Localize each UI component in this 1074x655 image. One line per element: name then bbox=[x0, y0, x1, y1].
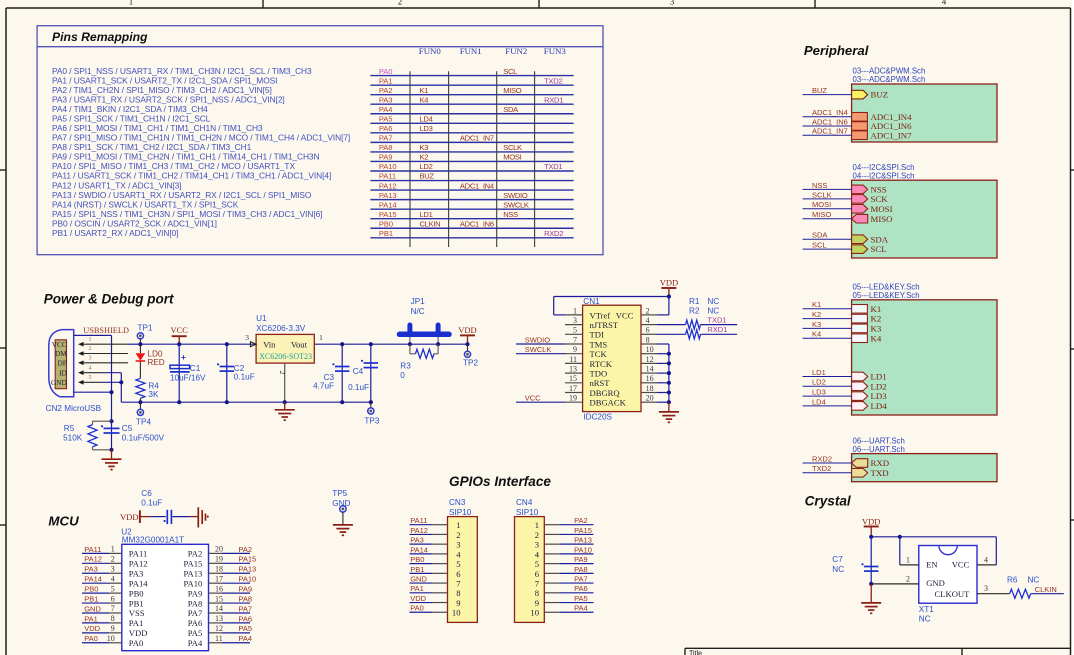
svg-text:4: 4 bbox=[942, 0, 947, 7]
svg-text:TP4: TP4 bbox=[136, 417, 151, 426]
svg-text:7: 7 bbox=[456, 578, 461, 588]
svg-text:10: 10 bbox=[530, 608, 539, 618]
svg-text:8: 8 bbox=[646, 335, 650, 344]
svg-text:PA11 / USART1_SCK / TIM1_CH2 /: PA11 / USART1_SCK / TIM1_CH2 / TIM14_CH1… bbox=[52, 171, 331, 181]
svg-text:PA13: PA13 bbox=[379, 191, 397, 200]
svg-text:8: 8 bbox=[535, 588, 539, 598]
svg-text:4.7uF: 4.7uF bbox=[313, 381, 334, 390]
svg-text:PA4: PA4 bbox=[188, 638, 203, 648]
svg-text:PA1: PA1 bbox=[84, 614, 98, 623]
svg-text:PA2: PA2 bbox=[379, 86, 393, 95]
svg-text:SCK: SCK bbox=[871, 194, 889, 204]
svg-text:R6: R6 bbox=[1007, 575, 1018, 584]
svg-text:1: 1 bbox=[319, 333, 323, 342]
svg-text:PA13: PA13 bbox=[574, 536, 592, 545]
svg-text:SCLK: SCLK bbox=[503, 143, 522, 152]
svg-text:PA0 / SPI1_NSS / USART1_RX / T: PA0 / SPI1_NSS / USART1_RX / TIM1_CH3N /… bbox=[52, 66, 312, 76]
svg-text:ADC1_IN4: ADC1_IN4 bbox=[812, 108, 848, 117]
svg-text:3K: 3K bbox=[148, 390, 159, 399]
svg-text:PA8: PA8 bbox=[238, 594, 252, 603]
svg-text:PB0: PB0 bbox=[84, 585, 98, 594]
svg-text:12: 12 bbox=[215, 624, 223, 633]
svg-text:PB1 / USART2_RX / ADC1_VIN[0]: PB1 / USART2_RX / ADC1_VIN[0] bbox=[52, 228, 178, 238]
svg-text:3: 3 bbox=[573, 316, 577, 325]
svg-text:PA10: PA10 bbox=[379, 162, 397, 171]
svg-text:VDD: VDD bbox=[129, 628, 148, 638]
svg-text:K3: K3 bbox=[871, 324, 882, 334]
svg-text:VSS: VSS bbox=[129, 608, 145, 618]
svg-text:ADC1_IN6: ADC1_IN6 bbox=[812, 117, 848, 126]
svg-text:PB0: PB0 bbox=[129, 588, 144, 598]
svg-text:9: 9 bbox=[111, 624, 115, 633]
svg-text:TCK: TCK bbox=[590, 349, 608, 359]
svg-text:SIP10: SIP10 bbox=[516, 508, 539, 517]
svg-text:RXD2: RXD2 bbox=[812, 454, 832, 463]
svg-text:PA12: PA12 bbox=[84, 555, 102, 564]
svg-text:PA12: PA12 bbox=[410, 526, 428, 535]
svg-text:nRST: nRST bbox=[590, 378, 611, 388]
svg-text:R1: R1 bbox=[689, 297, 700, 306]
svg-text:XC6206-3.3V: XC6206-3.3V bbox=[256, 324, 306, 333]
svg-text:BUZ: BUZ bbox=[812, 86, 827, 95]
svg-text:LD4: LD4 bbox=[871, 401, 888, 411]
svg-text:1: 1 bbox=[111, 545, 115, 554]
svg-text:PA10: PA10 bbox=[238, 575, 256, 584]
svg-text:PA12: PA12 bbox=[129, 559, 148, 569]
svg-text:17: 17 bbox=[215, 574, 223, 583]
svg-text:MOSI: MOSI bbox=[871, 204, 893, 214]
svg-text:6: 6 bbox=[111, 594, 115, 603]
svg-text:TP5: TP5 bbox=[332, 489, 347, 498]
svg-text:1: 1 bbox=[456, 520, 460, 530]
svg-text:LD1: LD1 bbox=[871, 372, 887, 382]
svg-text:C1: C1 bbox=[190, 364, 201, 373]
svg-text:VCC: VCC bbox=[52, 340, 67, 349]
svg-text:3: 3 bbox=[670, 0, 675, 7]
svg-text:16: 16 bbox=[646, 374, 654, 383]
svg-text:LD3: LD3 bbox=[871, 391, 888, 401]
svg-text:VDD: VDD bbox=[862, 516, 880, 526]
svg-text:CLKIN: CLKIN bbox=[1035, 585, 1057, 594]
svg-text:NC: NC bbox=[1028, 575, 1040, 584]
svg-text:9: 9 bbox=[535, 598, 539, 608]
svg-text:PB0: PB0 bbox=[379, 219, 393, 228]
svg-text:PA14: PA14 bbox=[379, 200, 397, 209]
svg-text:4: 4 bbox=[984, 555, 988, 564]
svg-text:05---LED&KEY.Sch: 05---LED&KEY.Sch bbox=[853, 291, 920, 300]
svg-text:TP3: TP3 bbox=[364, 416, 379, 425]
svg-text:VCC: VCC bbox=[525, 394, 541, 403]
svg-text:TXD1: TXD1 bbox=[707, 315, 726, 324]
svg-text:PA1: PA1 bbox=[129, 618, 144, 628]
svg-text:PA15: PA15 bbox=[574, 526, 592, 535]
svg-text:K2: K2 bbox=[812, 310, 821, 319]
svg-text:PA15: PA15 bbox=[379, 210, 397, 219]
svg-text:MISO: MISO bbox=[812, 210, 831, 219]
svg-text:15: 15 bbox=[215, 594, 223, 603]
svg-text:4: 4 bbox=[111, 574, 115, 583]
svg-text:RXD1: RXD1 bbox=[707, 325, 727, 334]
svg-text:PA13: PA13 bbox=[238, 565, 256, 574]
svg-text:6: 6 bbox=[535, 569, 540, 579]
svg-text:1: 1 bbox=[535, 520, 539, 530]
svg-text:PA5: PA5 bbox=[188, 628, 203, 638]
svg-text:15: 15 bbox=[569, 374, 577, 383]
svg-text:1: 1 bbox=[89, 337, 92, 343]
svg-text:0.1uF: 0.1uF bbox=[141, 498, 162, 507]
svg-text:LD1: LD1 bbox=[420, 210, 433, 219]
svg-text:PA3: PA3 bbox=[84, 565, 98, 574]
svg-text:PA6: PA6 bbox=[188, 618, 203, 628]
svg-text:BUZ: BUZ bbox=[871, 90, 889, 100]
svg-text:MM32G0001A1T: MM32G0001A1T bbox=[122, 536, 184, 545]
svg-text:MCU: MCU bbox=[48, 514, 79, 529]
svg-text:ADC1_IN7: ADC1_IN7 bbox=[460, 134, 494, 143]
svg-text:2: 2 bbox=[89, 346, 92, 352]
svg-text:RXD: RXD bbox=[871, 458, 890, 468]
svg-text:PB1: PB1 bbox=[84, 594, 98, 603]
svg-text:NC: NC bbox=[707, 297, 719, 306]
svg-text:NSS: NSS bbox=[871, 185, 887, 195]
svg-text:PA15: PA15 bbox=[238, 555, 256, 564]
svg-text:PA11: PA11 bbox=[379, 172, 396, 181]
svg-text:PA9: PA9 bbox=[574, 555, 588, 564]
svg-text:PA7: PA7 bbox=[379, 134, 393, 143]
svg-text:K4: K4 bbox=[420, 95, 429, 104]
svg-text:PA3: PA3 bbox=[129, 568, 144, 578]
svg-text:2: 2 bbox=[535, 530, 539, 540]
svg-text:510K: 510K bbox=[63, 433, 83, 442]
svg-text:17: 17 bbox=[569, 384, 577, 393]
svg-text:PA8: PA8 bbox=[574, 565, 588, 574]
svg-text:nJTRST: nJTRST bbox=[590, 320, 619, 330]
svg-text:0: 0 bbox=[400, 371, 405, 380]
svg-text:PA14 (NRST) / SWCLK / USART1_T: PA14 (NRST) / SWCLK / USART1_TX / SPI1_S… bbox=[52, 199, 239, 209]
svg-text:PA9 / SPI1_MOSI / TIM1_CH2N /: PA9 / SPI1_MOSI / TIM1_CH2N / TIM1_CH1 /… bbox=[52, 152, 320, 162]
svg-text:LD4: LD4 bbox=[812, 397, 826, 406]
svg-text:3: 3 bbox=[245, 333, 249, 342]
svg-text:PA15 / SPI1_NSS / TIM1_CH3N /: PA15 / SPI1_NSS / TIM1_CH3N / SPI1_MOSI … bbox=[52, 209, 322, 219]
svg-text:PA13: PA13 bbox=[184, 568, 203, 578]
svg-text:PA4: PA4 bbox=[379, 105, 393, 114]
svg-text:Peripheral: Peripheral bbox=[804, 43, 869, 58]
svg-text:SCL: SCL bbox=[503, 67, 517, 76]
svg-text:Vout: Vout bbox=[291, 339, 308, 349]
svg-text:DM: DM bbox=[55, 349, 67, 358]
svg-text:2: 2 bbox=[398, 0, 403, 7]
svg-text:K3: K3 bbox=[812, 320, 821, 329]
svg-text:MOSI: MOSI bbox=[812, 200, 831, 209]
svg-text:VDD: VDD bbox=[84, 624, 100, 633]
svg-text:2: 2 bbox=[456, 530, 460, 540]
svg-text:ID: ID bbox=[59, 368, 67, 377]
svg-text:18: 18 bbox=[646, 384, 654, 393]
svg-text:CLKIN: CLKIN bbox=[420, 219, 441, 228]
svg-text:18: 18 bbox=[215, 564, 223, 573]
svg-text:TXD2: TXD2 bbox=[544, 76, 562, 85]
svg-text:PA10 / SPI1_MISO / TIM1_CH3 /: PA10 / SPI1_MISO / TIM1_CH3 / TIM1_CH2 /… bbox=[52, 161, 295, 171]
svg-text:K4: K4 bbox=[812, 330, 821, 339]
svg-text:SDA: SDA bbox=[812, 231, 827, 240]
svg-text:K2: K2 bbox=[871, 314, 882, 324]
svg-text:PA12: PA12 bbox=[379, 181, 397, 190]
svg-text:PA4: PA4 bbox=[574, 604, 588, 613]
svg-text:LD2: LD2 bbox=[871, 381, 887, 391]
svg-text:MISO: MISO bbox=[503, 86, 522, 95]
svg-text:TP1: TP1 bbox=[138, 323, 153, 332]
svg-text:PA3: PA3 bbox=[379, 95, 393, 104]
svg-text:K2: K2 bbox=[420, 153, 429, 162]
svg-text:PA14: PA14 bbox=[410, 545, 428, 554]
svg-text:+: + bbox=[181, 352, 186, 362]
svg-text:GPIOs Interface: GPIOs Interface bbox=[449, 474, 551, 489]
svg-text:GND: GND bbox=[926, 578, 945, 588]
svg-text:3: 3 bbox=[89, 355, 92, 361]
svg-text:NSS: NSS bbox=[503, 210, 518, 219]
svg-text:10uF/16V: 10uF/16V bbox=[170, 373, 206, 382]
svg-text:PA13 / SWDIO / USART1_RX / USA: PA13 / SWDIO / USART1_RX / USART2_RX / I… bbox=[52, 190, 312, 200]
svg-text:5: 5 bbox=[111, 584, 115, 593]
svg-text:7: 7 bbox=[535, 578, 540, 588]
svg-text:MOSI: MOSI bbox=[503, 153, 521, 162]
svg-text:ADC1_IN7: ADC1_IN7 bbox=[812, 127, 848, 136]
svg-text:PA5 / SPI1_SCK / TIM1_CH1N / I: PA5 / SPI1_SCK / TIM1_CH1N / I2C1_SCL bbox=[52, 114, 211, 124]
svg-text:4: 4 bbox=[646, 316, 650, 325]
svg-text:PA11: PA11 bbox=[84, 545, 101, 554]
svg-text:VTref: VTref bbox=[590, 310, 611, 320]
svg-text:PA6: PA6 bbox=[238, 614, 252, 623]
svg-text:06---UART.Sch: 06---UART.Sch bbox=[853, 445, 905, 454]
svg-text:13: 13 bbox=[569, 365, 577, 374]
svg-text:4: 4 bbox=[535, 549, 540, 559]
svg-text:2: 2 bbox=[646, 306, 650, 315]
svg-text:USBSHIELD: USBSHIELD bbox=[83, 326, 129, 335]
svg-text:CN3: CN3 bbox=[449, 498, 466, 507]
svg-text:PA12 / USART1_TX / ADC1_VIN[3]: PA12 / USART1_TX / ADC1_VIN[3] bbox=[52, 180, 181, 190]
svg-text:PA5: PA5 bbox=[379, 115, 393, 124]
svg-text:TP2: TP2 bbox=[463, 359, 478, 368]
svg-text:10: 10 bbox=[452, 608, 461, 618]
svg-text:LD2: LD2 bbox=[812, 378, 826, 387]
svg-text:PA6: PA6 bbox=[379, 124, 393, 133]
svg-text:1: 1 bbox=[906, 555, 910, 564]
svg-text:04---I2C&SPI.Sch: 04---I2C&SPI.Sch bbox=[853, 171, 915, 180]
svg-text:PA9: PA9 bbox=[238, 585, 252, 594]
svg-text:GND: GND bbox=[410, 574, 427, 583]
svg-text:K1: K1 bbox=[812, 300, 821, 309]
svg-text:LD2: LD2 bbox=[420, 162, 433, 171]
svg-text:BUZ: BUZ bbox=[420, 172, 435, 181]
svg-text:20: 20 bbox=[215, 545, 223, 554]
svg-text:C7: C7 bbox=[832, 555, 843, 564]
svg-text:RTCK: RTCK bbox=[590, 359, 613, 369]
svg-text:10: 10 bbox=[107, 634, 115, 643]
svg-text:TDI: TDI bbox=[590, 330, 604, 340]
svg-text:PA0: PA0 bbox=[129, 638, 144, 648]
svg-text:RED: RED bbox=[147, 358, 164, 367]
svg-text:PA9: PA9 bbox=[379, 153, 393, 162]
svg-text:RXD1: RXD1 bbox=[544, 95, 563, 104]
svg-text:03---ADC&PWM.Sch: 03---ADC&PWM.Sch bbox=[853, 75, 926, 84]
svg-text:PA0: PA0 bbox=[410, 604, 424, 613]
svg-text:SDA: SDA bbox=[503, 105, 519, 114]
svg-text:SWDIO: SWDIO bbox=[503, 191, 528, 200]
svg-text:PA10: PA10 bbox=[574, 545, 592, 554]
svg-text:DBGRQ: DBGRQ bbox=[590, 388, 621, 398]
svg-text:PA11: PA11 bbox=[410, 516, 427, 525]
svg-text:0.1uF: 0.1uF bbox=[348, 383, 369, 392]
svg-text:PA8: PA8 bbox=[379, 143, 393, 152]
svg-text:PA7: PA7 bbox=[238, 604, 252, 613]
svg-text:PA2: PA2 bbox=[574, 516, 588, 525]
svg-text:16: 16 bbox=[215, 584, 223, 593]
svg-text:9: 9 bbox=[573, 345, 577, 354]
svg-text:SCL: SCL bbox=[871, 244, 887, 254]
svg-text:K4: K4 bbox=[871, 333, 882, 343]
svg-text:6: 6 bbox=[456, 569, 461, 579]
svg-text:VCC: VCC bbox=[952, 560, 970, 570]
svg-text:VDD: VDD bbox=[458, 325, 476, 335]
svg-text:FUN0: FUN0 bbox=[419, 46, 442, 56]
svg-text:5: 5 bbox=[456, 559, 460, 569]
svg-text:4: 4 bbox=[89, 365, 92, 371]
svg-text:RXD2: RXD2 bbox=[544, 229, 563, 238]
svg-text:PA2 / TIM1_CH2N / SPI1_MISO /: PA2 / TIM1_CH2N / SPI1_MISO / TIM3_CH2 /… bbox=[52, 85, 272, 95]
svg-text:VDD: VDD bbox=[120, 512, 138, 522]
svg-text:CN2 MicroUSB: CN2 MicroUSB bbox=[46, 404, 102, 413]
svg-text:12: 12 bbox=[646, 355, 654, 364]
svg-text:PB1: PB1 bbox=[410, 565, 424, 574]
svg-text:K3: K3 bbox=[420, 143, 429, 152]
svg-text:LD4: LD4 bbox=[420, 115, 433, 124]
svg-text:IDC20S: IDC20S bbox=[583, 412, 612, 421]
svg-text:CN4: CN4 bbox=[516, 498, 533, 507]
svg-text:EN: EN bbox=[926, 560, 938, 570]
svg-text:PA3: PA3 bbox=[410, 536, 424, 545]
svg-text:PA8: PA8 bbox=[188, 598, 203, 608]
svg-text:SWCLK: SWCLK bbox=[525, 345, 552, 354]
svg-text:SCL: SCL bbox=[812, 241, 827, 250]
svg-text:R2: R2 bbox=[689, 306, 700, 315]
svg-text:MISO: MISO bbox=[871, 214, 893, 224]
svg-text:1: 1 bbox=[129, 0, 134, 7]
svg-text:13: 13 bbox=[215, 614, 223, 623]
svg-text:3: 3 bbox=[535, 540, 539, 550]
svg-text:PB1: PB1 bbox=[379, 229, 393, 238]
svg-text:C6: C6 bbox=[141, 489, 152, 498]
svg-text:C4: C4 bbox=[353, 367, 364, 376]
svg-text:XT1: XT1 bbox=[919, 605, 934, 614]
svg-text:2: 2 bbox=[906, 574, 910, 583]
svg-text:PA1: PA1 bbox=[410, 584, 424, 593]
svg-text:PB0: PB0 bbox=[410, 555, 424, 564]
svg-text:2: 2 bbox=[111, 555, 115, 564]
svg-text:Vin: Vin bbox=[263, 339, 276, 349]
svg-text:2: 2 bbox=[278, 371, 287, 375]
svg-text:20: 20 bbox=[646, 394, 654, 403]
svg-text:ADC1_IN7: ADC1_IN7 bbox=[871, 130, 913, 140]
svg-text:K1: K1 bbox=[871, 304, 882, 314]
svg-text:PA11: PA11 bbox=[129, 549, 147, 559]
svg-text:PA8 / SPI1_SCK / TIM1_CH2 / I2: PA8 / SPI1_SCK / TIM1_CH2 / I2C1_SDA / T… bbox=[52, 142, 252, 152]
svg-text:FUN3: FUN3 bbox=[544, 46, 567, 56]
svg-text:Title: Title bbox=[689, 651, 702, 655]
svg-text:C5: C5 bbox=[122, 424, 133, 433]
svg-text:1: 1 bbox=[573, 306, 577, 315]
svg-text:Pins Remapping: Pins Remapping bbox=[52, 30, 148, 44]
svg-text:GND: GND bbox=[51, 378, 67, 387]
svg-text:PB0 / OSCIN / USART2_SCK / ADC: PB0 / OSCIN / USART2_SCK / ADC1_VIN[1] bbox=[52, 218, 217, 228]
svg-text:19: 19 bbox=[215, 555, 223, 564]
svg-text:PB1: PB1 bbox=[129, 598, 144, 608]
svg-text:PA7: PA7 bbox=[574, 574, 588, 583]
svg-text:R3: R3 bbox=[400, 362, 411, 371]
svg-text:PA3 / USART1_RX / USART2_SCK /: PA3 / USART1_RX / USART2_SCK / SPI1_NSS … bbox=[52, 94, 285, 104]
svg-text:PA9: PA9 bbox=[188, 588, 203, 598]
svg-text:19: 19 bbox=[569, 394, 577, 403]
svg-text:PA5: PA5 bbox=[574, 594, 588, 603]
svg-text:14: 14 bbox=[215, 604, 223, 613]
svg-text:NC: NC bbox=[919, 615, 931, 624]
svg-text:TDO: TDO bbox=[590, 369, 608, 379]
svg-text:SIP10: SIP10 bbox=[449, 508, 472, 517]
svg-text:PA10: PA10 bbox=[184, 578, 203, 588]
svg-text:SWCLK: SWCLK bbox=[503, 200, 529, 209]
svg-text:PA5: PA5 bbox=[238, 624, 252, 633]
svg-text:CLKOUT: CLKOUT bbox=[935, 589, 971, 599]
svg-text:9: 9 bbox=[456, 598, 460, 608]
svg-text:XC6206-SOT23: XC6206-SOT23 bbox=[259, 352, 312, 361]
svg-text:FUN2: FUN2 bbox=[505, 46, 527, 56]
svg-text:JP1: JP1 bbox=[411, 297, 426, 306]
svg-text:5: 5 bbox=[535, 559, 539, 569]
svg-text:LD3: LD3 bbox=[812, 388, 826, 397]
svg-text:7: 7 bbox=[111, 604, 115, 613]
svg-text:PA0: PA0 bbox=[84, 634, 98, 643]
svg-text:6: 6 bbox=[646, 326, 650, 335]
svg-text:PA7: PA7 bbox=[188, 608, 203, 618]
svg-text:U1: U1 bbox=[256, 314, 267, 323]
svg-text:8: 8 bbox=[456, 588, 460, 598]
svg-text:PA4 / TIM1_BKIN / I2C1_SDA / T: PA4 / TIM1_BKIN / I2C1_SDA / TIM3_CH4 bbox=[52, 104, 208, 114]
svg-text:DP: DP bbox=[57, 358, 66, 367]
svg-text:11: 11 bbox=[215, 634, 223, 643]
svg-text:0.1uF: 0.1uF bbox=[234, 372, 255, 381]
svg-text:SWDIO: SWDIO bbox=[525, 335, 551, 344]
svg-text:PA14: PA14 bbox=[84, 575, 102, 584]
svg-text:8: 8 bbox=[111, 614, 115, 623]
svg-text:SCLK: SCLK bbox=[812, 190, 832, 199]
svg-text:VDD: VDD bbox=[660, 278, 678, 288]
svg-text:ADC1_IN6: ADC1_IN6 bbox=[460, 219, 494, 228]
svg-text:3: 3 bbox=[984, 584, 988, 593]
svg-text:PA4: PA4 bbox=[238, 634, 252, 643]
svg-text:11: 11 bbox=[569, 355, 577, 364]
svg-text:TMS: TMS bbox=[590, 339, 608, 349]
svg-text:PA6 / SPI1_MOSI / TIM1_CH1 / T: PA6 / SPI1_MOSI / TIM1_CH1 / TIM1_CH1N /… bbox=[52, 123, 263, 133]
svg-text:TXD1: TXD1 bbox=[544, 162, 562, 171]
svg-text:GND: GND bbox=[84, 604, 101, 613]
svg-text:TXD2: TXD2 bbox=[812, 464, 831, 473]
svg-text:K1: K1 bbox=[420, 86, 429, 95]
svg-text:VCC: VCC bbox=[616, 310, 634, 320]
svg-text:PA1: PA1 bbox=[379, 76, 393, 85]
svg-text:3: 3 bbox=[456, 540, 460, 550]
svg-text:PA7 / SPI1_MISO / TIM1_CH1N /: PA7 / SPI1_MISO / TIM1_CH1N / TIM1_CH2N … bbox=[52, 133, 350, 143]
svg-text:PA1 / USART1_SCK / USART2_TX /: PA1 / USART1_SCK / USART2_TX / I2C1_SDA … bbox=[52, 75, 277, 85]
svg-text:PA2: PA2 bbox=[188, 549, 203, 559]
svg-text:PA2: PA2 bbox=[238, 545, 252, 554]
